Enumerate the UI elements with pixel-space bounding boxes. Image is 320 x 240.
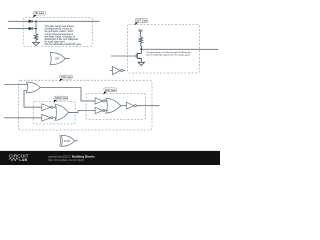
- svg-text:XOR: XOR: [64, 139, 70, 143]
- annotation text NOT box: [146, 51, 191, 57]
- label NAND Gate: [54, 96, 69, 103]
- svg-text:the pull-down resistor, which: the pull-down resistor, which: [45, 30, 75, 33]
- wire G1 output routed to AND box: [41, 88, 96, 101]
- transistor source arrow: [138, 58, 140, 59]
- not gate G8: [126, 102, 134, 109]
- footer credit text: [48, 154, 95, 162]
- XOR subcircuit symbol: [60, 135, 78, 146]
- svg-text:is from universal experience: is from universal experience: [45, 33, 74, 36]
- or-gate G4: [55, 105, 69, 121]
- svg-text:OR Gate: OR Gate: [35, 12, 45, 15]
- annotation text OR box: [45, 25, 82, 46]
- AND gate box (dashed): [86, 94, 146, 120]
- ground: [33, 41, 39, 45]
- svg-text:OR: OR: [55, 57, 59, 61]
- wire G7 out: [121, 105, 126, 107]
- or-gate G7: [106, 98, 121, 113]
- svg-text:NAND Gate: NAND Gate: [55, 97, 68, 100]
- diode D2: [29, 27, 32, 30]
- label NOT Gate: [135, 19, 148, 26]
- CircuitLab logo: [9, 153, 29, 162]
- not gate G2: [42, 104, 51, 111]
- svg-text:LAB: LAB: [19, 158, 27, 162]
- node junction dots: [35, 20, 37, 22]
- wire G2 in: [53, 106, 57, 108]
- resistor R1: [34, 34, 38, 41]
- not gate G6: [95, 107, 103, 113]
- label OR Gate: [33, 11, 45, 18]
- wire G3 in: [53, 117, 57, 119]
- wire input A1: [8, 20, 29, 22]
- footer bar: [0, 151, 220, 165]
- NOT subcircuit symbol: [110, 67, 126, 75]
- wire input A2: [8, 28, 29, 30]
- wire output NOT: [141, 48, 218, 50]
- wire node vertical: [35, 21, 37, 34]
- svg-text:XOR Gate: XOR Gate: [61, 76, 73, 79]
- wire XOR output: [136, 105, 159, 107]
- node junction: [140, 48, 142, 50]
- wire gate input: [111, 55, 136, 57]
- svg-text:http://circuitlab.com/c/mkjzf: http://circuitlab.com/c/mkjzf: [48, 158, 84, 162]
- not gate G5: [95, 98, 103, 104]
- not gate G3: [42, 114, 51, 121]
- svg-text:http://en.wikipedia.org/wiki/O: http://en.wikipedia.org/wiki/OR_gate: [45, 43, 82, 46]
- label AND Gate: [104, 88, 117, 95]
- wire G1 lower input: [24, 91, 42, 108]
- wire input B: [4, 117, 42, 119]
- OR gate implementation box (dashed): [23, 18, 92, 47]
- svg-text:for exact placement:: for exact placement:: [45, 41, 66, 44]
- XOR gate implementation box (dashed): [19, 80, 153, 130]
- svg-text:at independently, except for: at independently, except for: [45, 28, 73, 31]
- svg-text:http://en.wikipedia.org/wiki/I: http://en.wikipedia.org/wiki/Inverter_(l…: [146, 54, 190, 57]
- svg-text:This gate design was arrived: This gate design was arrived: [45, 25, 75, 28]
- transistor M1 (NMOS): [136, 46, 141, 61]
- svg-text:with Mark Oates, University of: with Mark Oates, University of: [45, 35, 76, 38]
- wire D2 cathode to node: [32, 28, 36, 30]
- wire G5 in: [105, 100, 108, 102]
- wire input A: [4, 84, 28, 86]
- OR subcircuit symbol: [50, 53, 69, 65]
- svg-text:NOT Gate: NOT Gate: [136, 20, 148, 23]
- ground: [138, 61, 144, 65]
- or-gate G1: [27, 82, 41, 93]
- wire G6 in: [105, 110, 108, 112]
- svg-text:AND Gate: AND Gate: [105, 89, 117, 92]
- diode D1: [29, 20, 32, 23]
- resistor R2: [139, 37, 143, 46]
- wire NAND output to AND box: [69, 111, 96, 113]
- label XOR Gate: [59, 75, 72, 82]
- NOT gate implementation box (dashed): [128, 25, 200, 74]
- NAND gate box (dashed): [33, 102, 75, 125]
- svg-text:Washington CSE, and Wikipedia: Washington CSE, and Wikipedia: [45, 38, 79, 41]
- wire D1 cathode to output: [32, 20, 100, 22]
